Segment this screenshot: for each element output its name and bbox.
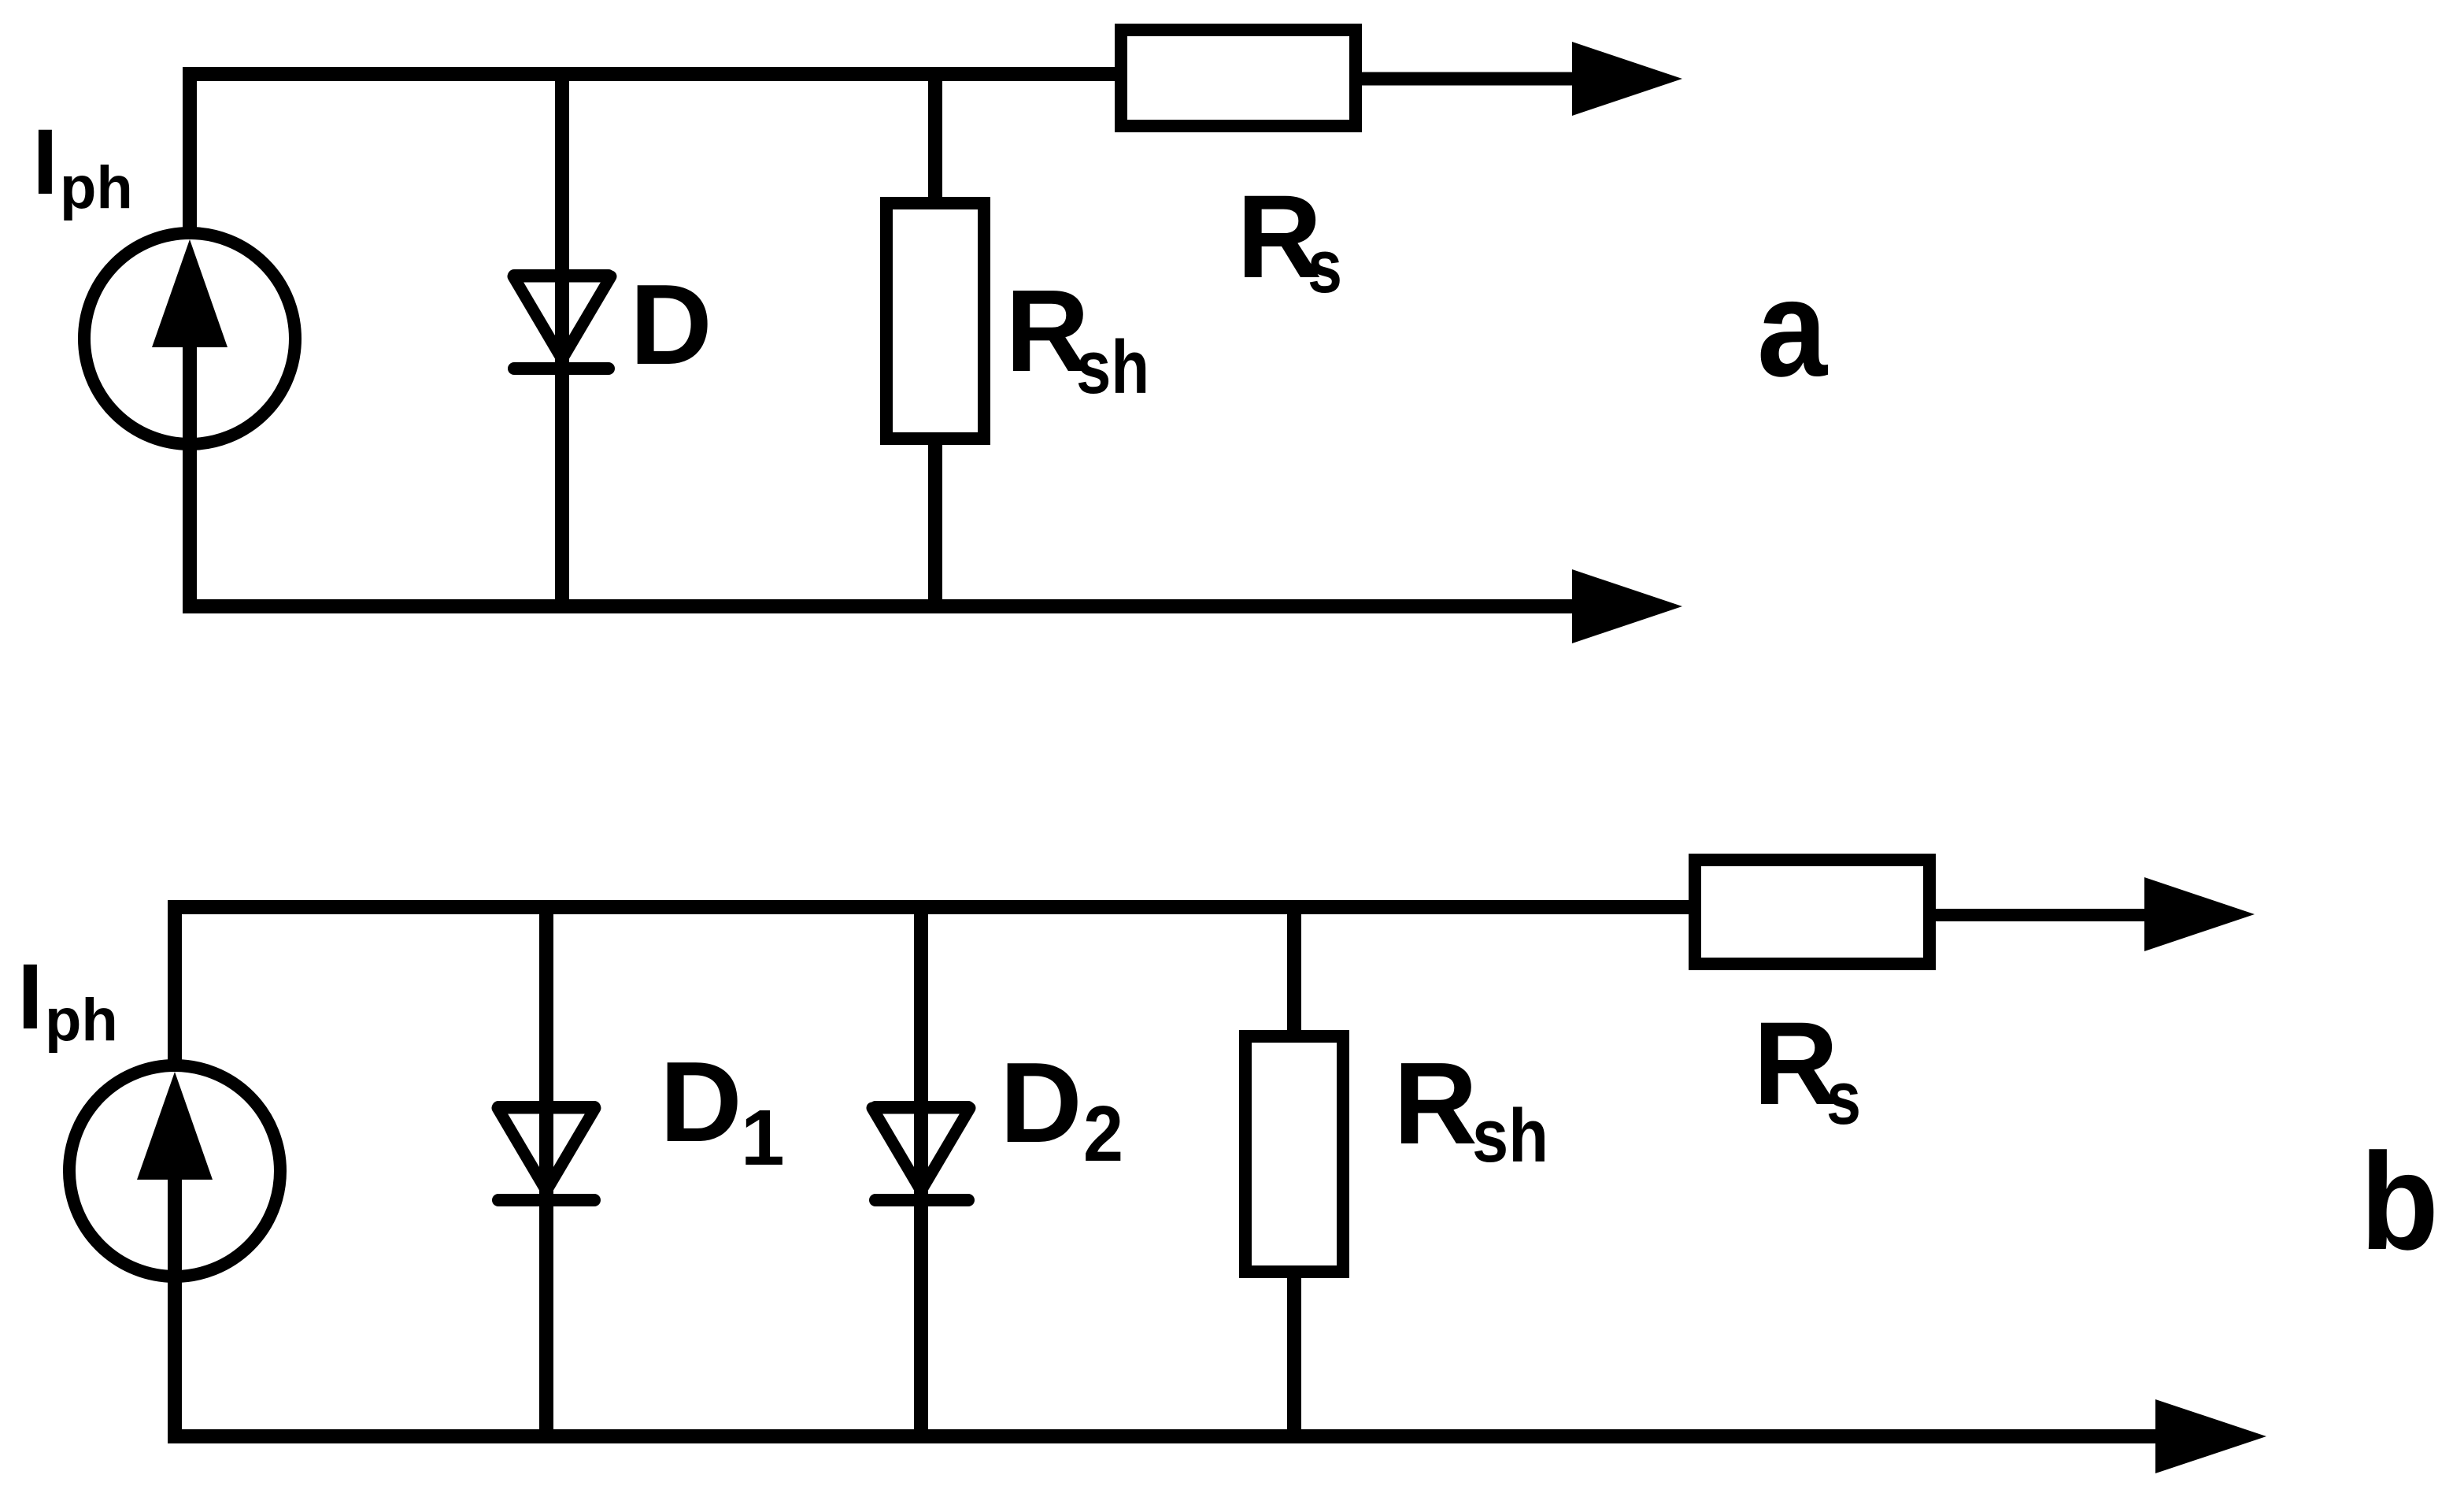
wire: diode D1 branch (b) [539, 907, 553, 1436]
series resistor Rs (b) [1695, 860, 1929, 964]
svg-text:2: 2 [1083, 1090, 1123, 1178]
svg-text:sh: sh [1076, 325, 1149, 409]
wire: output top (b) [1929, 909, 2149, 921]
svg-text:ph: ph [60, 154, 133, 221]
svg-text:D: D [1000, 1039, 1082, 1166]
wire: diode D2 branch (b) [914, 907, 928, 1436]
wire: diode D branch (a) [555, 74, 569, 606]
svg-text:a: a [1757, 252, 1829, 406]
wire: output top (a) [1356, 72, 1578, 86]
arrow: output top (a) [1572, 42, 1682, 116]
svg-text:I: I [17, 945, 43, 1049]
svg-text:R: R [1393, 1039, 1478, 1169]
svg-text:D: D [630, 261, 712, 388]
resistor Rsh (b) [1245, 1036, 1343, 1272]
wire: shunt resistor Rsh branch (b) [1287, 907, 1301, 1436]
svg-text:b: b [2360, 1125, 2439, 1279]
wire: shunt resistor Rsh branch (a) [928, 74, 942, 606]
svg-text:1: 1 [741, 1094, 785, 1182]
arrow: output bottom (a) [1572, 569, 1682, 643]
diode D1 (b) [498, 1107, 595, 1200]
diode D2 (b) [872, 1107, 970, 1200]
svg-text:s: s [1308, 224, 1342, 309]
svg-text:ph: ph [45, 987, 118, 1054]
series resistor Rs (a) [1121, 30, 1356, 126]
resistor Rsh (a) [886, 203, 984, 439]
wire: circuit a top rail, left branch and bottom rail [190, 74, 1578, 606]
current source Iph (b) [69, 1065, 280, 1295]
diode D (a) [513, 276, 611, 369]
arrow: output top (b) [2144, 877, 2255, 951]
svg-text:sh: sh [1472, 1094, 1548, 1178]
wire: circuit b top rail, left branch and bottom rail [175, 907, 2161, 1436]
svg-text:I: I [32, 110, 58, 214]
arrow: output bottom (b) [2155, 1399, 2266, 1473]
svg-text:D: D [660, 1038, 742, 1165]
current source Iph (a) [84, 233, 295, 463]
svg-text:s: s [1826, 1056, 1861, 1140]
